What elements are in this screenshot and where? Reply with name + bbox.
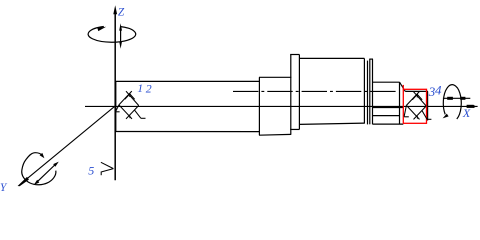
translation double arrow along Z: line: [120, 28, 122, 45]
support points 1-2 symbol (left): [116, 91, 146, 119]
shaft flange outline: [290, 55, 299, 135]
chamfer: [400, 82, 406, 91]
Y axis: [26, 106, 116, 180]
translation double arrow along Z: lower head: [119, 42, 122, 49]
svg-text:5: 5: [88, 163, 94, 177]
support point 5 symbol (chevron on left end face): [101, 162, 114, 175]
centerline (dash-dot): [233, 90, 398, 92]
Z axis: [114, 12, 116, 180]
shaft section 1 (thin left journal) outline: [115, 81, 259, 131]
groove ring rectangle: [369, 59, 373, 124]
rotation arrow about Y arrowhead: [40, 153, 45, 158]
translation double arrow along X: left head: [447, 97, 453, 100]
rotation arrow about X (ellipse arc): [443, 85, 461, 119]
svg-text:4: 4: [435, 83, 442, 98]
rotation arrow about Y (ellipse arc): [22, 153, 56, 185]
X axis arrowhead: [467, 105, 474, 108]
Y axis arrowhead: [18, 177, 29, 186]
shaft end section outline: [405, 91, 428, 120]
translation double arrow along Y: upper head: [53, 162, 59, 167]
shaft section 6 (threaded end) outline: [373, 82, 404, 124]
translation double arrow along X: right head: [460, 97, 465, 100]
svg-text:1: 1: [137, 81, 143, 95]
Z axis arrowhead: [113, 5, 117, 14]
translation double arrow along Y: lower head: [34, 180, 40, 185]
rotation arrow about Z arrowhead: [97, 27, 106, 31]
groove line: [367, 61, 369, 125]
support points 3-4 symbol (right, inside red box): [404, 92, 431, 120]
translation double arrow along Y: line: [37, 164, 56, 182]
rotation arrow about X arrowhead: [443, 114, 449, 119]
rotation arrow about Z (ellipse arc): [88, 27, 136, 43]
X axis: [85, 105, 478, 107]
shaft section 2 (step) outline: [259, 77, 291, 135]
shaft big section outline: [299, 58, 364, 124]
svg-text:X: X: [462, 106, 471, 120]
svg-text:Y: Y: [0, 182, 8, 194]
translation double arrow along Z: upper head: [119, 23, 122, 30]
red highlight box: [403, 85, 426, 123]
translation double arrow along X: line: [443, 97, 470, 99]
svg-text:Z: Z: [118, 6, 125, 18]
svg-text:2: 2: [146, 82, 152, 96]
